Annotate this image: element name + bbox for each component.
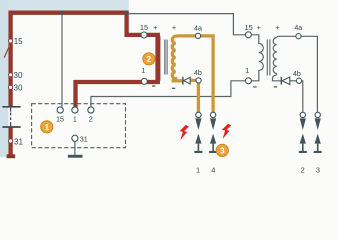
svg-text:15: 15 — [14, 37, 23, 46]
wire: coil B secondary top to 4a and down to plug 3 — [277, 36, 318, 111]
battery G1 plates — [2, 107, 20, 127]
svg-text:4b: 4b — [293, 70, 301, 78]
control unit box (component 1) dashed outline — [32, 104, 126, 148]
svg-text:15: 15 — [56, 115, 64, 124]
badge 2 — [143, 53, 155, 65]
spark gap plug 3 — [314, 112, 322, 153]
unit terminal 2 — [88, 107, 94, 113]
svg-text:1: 1 — [45, 123, 50, 132]
coil B core — [266, 40, 268, 76]
svg-text:1: 1 — [245, 68, 249, 75]
junction dot A — [60, 11, 64, 15]
wire: thin top line to coil B terminal 15 — [127, 14, 246, 35]
spark gap plug 4 — [209, 112, 217, 153]
coil B terminal 1 — [245, 78, 251, 84]
svg-text:+: + — [153, 23, 157, 32]
svg-text:1: 1 — [142, 68, 146, 75]
coil B terminal 4b — [296, 78, 301, 83]
svg-text:30: 30 — [14, 71, 23, 80]
terminal circle 15 on rail — [9, 39, 13, 43]
svg-text:31: 31 — [80, 135, 88, 144]
unit terminal 1 — [72, 107, 78, 113]
svg-text:4: 4 — [211, 165, 215, 174]
svg-text:1: 1 — [73, 115, 77, 124]
svg-text:2: 2 — [147, 55, 152, 64]
svg-text:+: + — [257, 23, 261, 32]
terminal circle 30 upper — [9, 73, 13, 77]
coil A terminal 4a — [195, 33, 200, 38]
terminal circle 31 on rail — [9, 139, 13, 143]
wire: coil B diode to 4b — [290, 80, 297, 82]
junction dot B — [125, 11, 129, 15]
ground bar (unit) — [68, 155, 83, 158]
wire: coil B secondary bottom to diode — [273, 74, 281, 81]
label minus (coil A secondary) — [172, 88, 175, 89]
coil B secondary winding — [273, 38, 277, 74]
svg-text:+: + — [275, 23, 279, 32]
coil B terminal 4a — [296, 34, 301, 39]
blue background left strip — [0, 0, 9, 157]
coil A core — [164, 40, 166, 75]
diode (coil A) — [183, 77, 190, 85]
spark gap plug 1 — [194, 112, 202, 153]
svg-text:4a: 4a — [294, 24, 302, 32]
coil B primary winding — [251, 35, 263, 81]
svg-text:+: + — [172, 23, 176, 32]
wire: coil A secondary top to 4a and down to plug 4 — [176, 36, 213, 112]
unit terminal 31 — [72, 135, 78, 141]
blue background top strip — [0, 0, 129, 11]
badge 3 — [216, 144, 228, 156]
svg-text:3: 3 — [316, 165, 320, 174]
badge 1 — [41, 121, 53, 133]
svg-text:1: 1 — [196, 165, 200, 174]
ground stub below 31 — [7, 154, 16, 158]
terminal circle 30 lower — [9, 85, 13, 89]
coil B terminal 15 — [245, 32, 251, 38]
svg-text:15: 15 — [244, 23, 252, 32]
wire: unit pin 2 to coil B terminal 1 — [91, 81, 245, 107]
coil A terminal 15 — [141, 32, 147, 38]
wire: coil A diode to 4b — [190, 79, 196, 82]
svg-text:31: 31 — [14, 137, 23, 146]
wire: coil B 4b down to plug 2 — [301, 81, 302, 112]
wire: main red primary current path (battery 30 - switch - coil primary - unit pin 1) — [11, 13, 158, 107]
spark flash left — [180, 125, 189, 140]
ignition switch lever (15/30) — [4, 45, 10, 58]
svg-text:2: 2 — [301, 165, 305, 174]
unit terminal 15 — [57, 107, 63, 113]
svg-text:3: 3 — [220, 146, 225, 155]
wire: red rail battery negative to terminal 31 — [8, 128, 12, 155]
coil A terminal 1 — [141, 78, 147, 84]
label minus (coil A primary) — [152, 85, 155, 86]
wire: coil A secondary bottom to diode — [172, 77, 183, 81]
svg-text:15: 15 — [140, 23, 148, 32]
svg-text:4a: 4a — [194, 25, 202, 33]
svg-text:2: 2 — [89, 115, 93, 124]
coil A terminal 4b — [196, 78, 201, 83]
wire: pin 31 to ground — [74, 142, 76, 156]
coil A secondary winding (orange) — [172, 36, 176, 79]
wire: coil A 4b down to plug 1 — [197, 83, 200, 112]
spark flash right — [222, 124, 231, 139]
label minus (coil B primary) — [253, 86, 256, 87]
diode (coil B) — [281, 77, 290, 85]
spark gap plug 2 — [299, 112, 307, 153]
label minus (coil B secondary) — [274, 86, 277, 87]
coil A primary winding (thick bar) — [155, 36, 160, 81]
svg-text:30: 30 — [14, 84, 23, 93]
wire: thin line from junction to unit pin 15 — [61, 14, 63, 107]
svg-text:4b: 4b — [194, 69, 202, 77]
